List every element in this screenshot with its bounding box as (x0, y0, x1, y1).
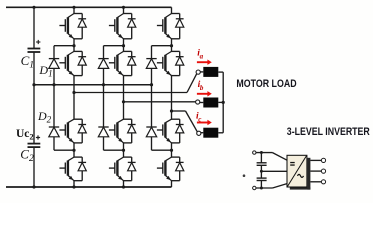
diode: antiparallel diode of S4b (124, 157, 136, 181)
transistor S1b (IGBT) (109, 14, 124, 39)
wire: terminal to load block a (200, 71, 203, 73)
svg-text:MOTOR LOAD: MOTOR LOAD (236, 78, 296, 90)
node: icon output terminal 2 (321, 169, 325, 173)
wire: leg a collector drop from DC+ bus (73, 7, 75, 13)
load block phase b (motor winding) (203, 98, 218, 108)
node: icon cap midpoint junction (260, 170, 263, 173)
svg-text:Uc2: Uc2 (16, 128, 34, 141)
node: S1a/S2a junction (72, 44, 75, 47)
node: icon output terminal 3 (321, 180, 325, 184)
node: star point (222, 101, 225, 104)
diode: antiparallel diode of S4a (74, 157, 86, 181)
transistor S3a (IGBT) (59, 119, 74, 143)
node: lower clamp at neutral rail (151, 84, 153, 86)
wire: positive DC bus (6, 6, 172, 8)
label MOTOR LOAD (236, 78, 296, 90)
label D1 (38, 63, 52, 79)
wire: junction to upper clamp diode (104, 45, 124, 47)
wire: S1b emitter to node (123, 39, 125, 46)
wire: leg c collector drop from DC+ bus (171, 7, 173, 13)
label Uc2 (16, 128, 34, 141)
arrow: current direction i_a (197, 60, 212, 65)
wire: S3b emitter to node (123, 143, 125, 150)
wire: load block b to star bus (218, 101, 223, 103)
wire: lower clamp diode to junction (54, 149, 74, 151)
diode: antiparallel diode of S1b (124, 14, 136, 39)
svg-text:C1: C1 (21, 53, 34, 71)
wire: node to S2a collector (73, 46, 75, 52)
label + (C2 polarity) (36, 135, 40, 139)
svg-text:b: b (200, 84, 204, 92)
label C1 (21, 53, 34, 71)
diode: antiparallel diode of S1a (74, 14, 86, 39)
diode: antiparallel diode of S4c (172, 157, 184, 181)
node: DC- bus / capacitor chain (32, 185, 35, 188)
diode: antiparallel diode of S3b (124, 119, 136, 143)
node: icon cap top junction (260, 151, 263, 154)
wire: S4c emitter to DC- bus (171, 181, 173, 187)
wire: S3a emitter to node (73, 143, 75, 150)
capacitor: icon upper DC-link cap (257, 163, 267, 166)
label 3-LEVEL INVERTER (287, 126, 370, 138)
node: DC+ bus / capacitor chain (32, 6, 35, 9)
capacitor C1 (28, 49, 41, 53)
transistor S2a (IGBT) (59, 51, 74, 75)
node: phase b output tap (122, 100, 125, 103)
diode: antiparallel diode of S2b (124, 51, 136, 75)
diode: lower clamp diode (leg c) (146, 85, 156, 151)
node: S3c/S4c junction (170, 149, 173, 152)
wire: icon DC+ input (256, 153, 287, 161)
wire: icon capacitor chain (260, 153, 262, 188)
wire: S3c emitter to node (171, 143, 173, 150)
capacitor: icon lower DC-link cap (257, 178, 267, 180)
node a: output terminal circle (196, 70, 200, 74)
wire: node to S4b collector (123, 150, 125, 157)
wire: node to S2c collector (171, 46, 173, 52)
node: upper clamp at neutral rail (150, 83, 153, 86)
svg-text:D2: D2 (37, 109, 52, 125)
wire: S1a emitter to node (73, 39, 75, 46)
wire: phase tap to S3b collector (123, 102, 125, 119)
wire: S4b emitter to DC- bus (123, 181, 125, 187)
wire: S2b emitter to phase tap (123, 76, 125, 102)
label i_b (red current label) (198, 80, 204, 92)
diode: antiparallel diode of S3c (172, 119, 184, 143)
symbol: AC (~) mark (298, 174, 304, 177)
wire: terminal to load block b (200, 102, 204, 104)
transistor S4b (IGBT) (109, 157, 124, 181)
wire: S2a emitter to phase tap (73, 76, 75, 93)
inverter block (=/~ converter box) (287, 155, 307, 187)
diode: antiparallel diode of S1c (172, 14, 184, 39)
node: S3b/S4b junction (122, 149, 125, 152)
wire: inverter box diagonal (288, 156, 307, 187)
wire: S2c emitter to phase tap (171, 76, 173, 111)
label i_c (red current label) (196, 112, 201, 124)
load block phase c (motor winding) (203, 128, 218, 138)
transistor S3c (IGBT) (157, 119, 172, 143)
stray dot mark (243, 174, 246, 177)
svg-text:a: a (200, 52, 204, 60)
diode: lower clamp diode (leg b) (98, 85, 108, 151)
wire: S4a emitter to DC- bus (73, 181, 75, 187)
wire: lower clamp diode to junction (152, 149, 172, 151)
arrow: current direction i_b (197, 91, 212, 96)
inverter block shadow (290, 158, 311, 190)
wire: icon phase 1 output (310, 159, 321, 161)
wire: DC-link capacitor chain (33, 7, 35, 187)
node: S1c/S2c junction (170, 44, 173, 47)
node: DC- bus leg b (122, 185, 125, 188)
arrow: current direction i_c (197, 120, 212, 125)
transistor S3b (IGBT) (109, 119, 124, 143)
wire: junction to upper clamp diode (54, 45, 74, 47)
wire: S1c emitter to node (171, 39, 173, 46)
diode: antiparallel diode of S2c (172, 51, 184, 75)
wire: node to S2b collector (123, 46, 125, 52)
svg-text:3-LEVEL INVERTER: 3-LEVEL INVERTER (287, 126, 370, 138)
wire: icon DC- input (256, 184, 287, 188)
wire: node to S4a collector (73, 150, 75, 157)
node: S3a/S4a junction (72, 149, 75, 152)
node: DC+ bus leg a (72, 6, 75, 9)
wire: junction to upper clamp diode (152, 45, 172, 47)
transistor S2c (IGBT) (157, 51, 172, 75)
wire: node to S4c collector (171, 150, 173, 157)
transistor S1c (IGBT) (157, 14, 172, 39)
wire: load block a to star bus (218, 71, 223, 73)
label + (C1 polarity) (36, 40, 40, 44)
diode: upper clamp diode (leg c) (146, 46, 156, 85)
diode: antiparallel diode of S2a (74, 51, 86, 75)
node: upper clamp at neutral rail (52, 83, 55, 86)
diode: upper clamp diode D1 (leg a) (49, 46, 59, 85)
node c: output terminal circle (197, 131, 201, 135)
label C2 (20, 147, 34, 165)
wire: phase tap to S3c collector (171, 111, 173, 119)
symbol: DC (=) mark (290, 162, 295, 166)
node b: output terminal circle (196, 100, 200, 104)
label i_a (red current label) (197, 49, 203, 61)
node: neutral rail / capacitor midpoint (32, 83, 35, 86)
node: DC- bus leg a (72, 185, 75, 188)
node: phase a output tap (72, 91, 75, 94)
node: DC+ bus leg b (122, 6, 125, 9)
wire: phase b output rail (124, 101, 196, 103)
node: icon DC- terminal (253, 186, 256, 189)
wire: phase tap to S3a collector (73, 93, 75, 120)
node: icon cap bottom junction (260, 187, 263, 190)
node: icon DC+ terminal (253, 151, 256, 154)
node: lower clamp at neutral rail (53, 84, 55, 86)
node: upper clamp at neutral rail (102, 83, 105, 86)
transistor S1a (IGBT) (59, 14, 74, 39)
transistor S2b (IGBT) (109, 51, 124, 75)
wire: icon midpoint input (261, 170, 287, 172)
wire: negative DC bus (6, 186, 172, 188)
node: lower clamp at neutral rail (103, 84, 105, 86)
transistor S4a (IGBT) (59, 157, 74, 181)
wire: phase a output rail (74, 74, 197, 93)
node: phase c output tap (170, 109, 173, 112)
load block phase a (motor winding) (203, 67, 218, 77)
diode: antiparallel diode of S3a (74, 119, 86, 143)
diode: lower clamp diode D2 (leg a) (49, 85, 59, 151)
node: icon output terminal 1 (321, 158, 325, 162)
wire: load block c to star bus (218, 132, 223, 134)
wire: icon phase 2 output (310, 170, 321, 172)
wire: neutral rail (34, 84, 152, 86)
transistor S4c (IGBT) (157, 157, 172, 181)
wire: phase c output rail (172, 111, 198, 132)
wire: icon phase 3 output (310, 181, 321, 183)
wire: leg b collector drop from DC+ bus (123, 7, 125, 13)
diode: upper clamp diode (leg b) (98, 46, 108, 85)
label D2 (37, 109, 52, 125)
svg-text:C2: C2 (20, 147, 34, 165)
wire: lower clamp diode to junction (104, 149, 124, 151)
capacitor C2 (28, 144, 41, 148)
wire: star-point bus (222, 72, 224, 133)
node: S1b/S2b junction (122, 44, 125, 47)
wire: terminal to load block c (201, 132, 203, 134)
